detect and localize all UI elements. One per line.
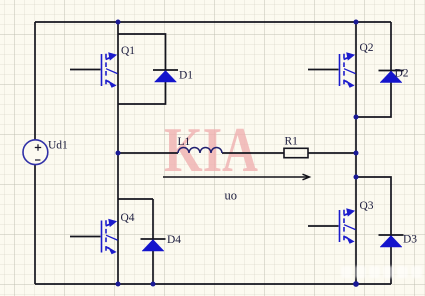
wire left vertical upper (34, 22, 36, 140)
node mid-right junction (354, 151, 359, 156)
wire Q1 leg vertical (117, 22, 119, 153)
wire Q1 gate lead (70, 69, 101, 71)
svg-text:Q1: Q1 (121, 45, 135, 57)
svg-text:L1: L1 (178, 136, 191, 148)
svg-text:Q4: Q4 (121, 212, 135, 224)
transistor Q2 (340, 52, 356, 88)
svg-text:D3: D3 (403, 234, 417, 246)
wire Q2 gate lead (308, 69, 339, 71)
arrow uo direction (163, 174, 310, 180)
svg-text:Ud1: Ud1 (48, 140, 68, 152)
voltage source Ud1 (23, 140, 48, 165)
diode D3 (379, 235, 404, 247)
wire D4 loop top (118, 198, 153, 200)
wire left vertical lower (34, 165, 36, 284)
svg-text:uo: uo (225, 189, 238, 203)
wire Q3 gate lead (308, 225, 339, 227)
svg-text:D4: D4 (167, 234, 181, 246)
node at top of Q1 leg (116, 20, 121, 25)
transistor Q3 (340, 208, 356, 244)
wire top rail (35, 21, 391, 23)
svg-text:R1: R1 (285, 136, 299, 148)
wire mid rail right (308, 152, 356, 154)
node mid-left junction (116, 151, 121, 156)
faint site watermark bottom right (341, 266, 422, 278)
node bottom Q4 leg (116, 282, 121, 287)
node bottom Q3 leg (353, 281, 359, 287)
diode D2 (379, 71, 404, 83)
wire bottom rail (35, 283, 391, 285)
node D2 junction (354, 115, 359, 120)
transistor Q4 (102, 219, 118, 255)
svg-text:Q2: Q2 (360, 42, 374, 54)
wire D1 loop (118, 34, 166, 104)
wire Q4 gate lead (70, 236, 101, 238)
inductor L1 (178, 148, 222, 154)
wire D3 branch (356, 177, 391, 284)
diode D1 (153, 70, 178, 82)
svg-text:Q3: Q3 (360, 200, 374, 212)
wire mid rail middle (222, 152, 284, 154)
wire D4 branch vertical (152, 199, 154, 284)
transistor Q1 (102, 52, 118, 88)
wire Q4 leg vertical (117, 153, 119, 284)
node bottom D4 branch (151, 282, 156, 287)
node at top of Q2 leg (354, 20, 359, 25)
wire D2 branch (356, 22, 391, 117)
wire mid rail left (118, 152, 178, 154)
resistor R1 (284, 148, 308, 157)
node D3 junction (354, 175, 359, 180)
svg-text:D2: D2 (395, 68, 409, 80)
diode D4 (141, 239, 166, 251)
wire right leg vertical (355, 22, 357, 284)
svg-text:D1: D1 (179, 70, 193, 82)
